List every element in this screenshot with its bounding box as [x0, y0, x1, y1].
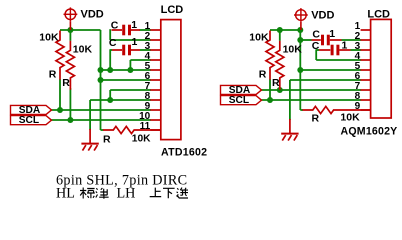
- pin 1 AQM1602Y stub: [361, 29, 371, 31]
- svg-text:LH: LH: [117, 186, 136, 202]
- pin 7 ATD1602: [150, 89, 160, 91]
- resistor R5 pullup right circuit: [276, 41, 284, 90]
- svg-text:R: R: [259, 68, 267, 80]
- wire C1 right lead to pin 1: [140, 29, 152, 31]
- kanji ue (up): [150, 188, 162, 197]
- lead C1 right: [131, 29, 140, 31]
- svg-text:10K: 10K: [39, 32, 59, 44]
- capacitor C4 right circuit: [332, 45, 338, 56]
- pin 5 ATD1602: [150, 69, 160, 71]
- resistor R6 contrast right: [303, 106, 371, 113]
- svg-text:C: C: [109, 37, 117, 49]
- svg-text:AQM1602Y: AQM1602Y: [341, 125, 398, 137]
- pin 6 AQM1602Y: [361, 79, 371, 81]
- junction R5 top: [277, 27, 283, 33]
- resistor R1 pullup left: [56, 31, 64, 80]
- pin 2 AQM1602Y: [361, 39, 371, 41]
- capacitor C2 left circuit: [124, 45, 130, 56]
- pin 5 AQM1602Y: [361, 69, 371, 71]
- resistor R2 pullup left: [66, 41, 74, 90]
- ground right: [281, 134, 298, 141]
- svg-text:11: 11: [140, 121, 151, 132]
- net flag SDA left: [11, 105, 52, 114]
- junction pin5 C2: [107, 67, 113, 73]
- wire SCL net to pin 8 right: [261, 99, 361, 101]
- svg-text:ATD1602: ATD1602: [161, 147, 207, 159]
- IC LCD module ATD1602: [161, 20, 181, 140]
- wire C4 left lead elbow to pin 4: [315, 49, 317, 60]
- svg-text:1: 1: [132, 36, 138, 48]
- svg-text:VDD: VDD: [81, 9, 104, 21]
- capacitor C1 left circuit: [124, 25, 130, 36]
- net flag SCL left: [11, 116, 52, 125]
- kanji shita (down): [163, 188, 175, 198]
- wire ground drop red right: [289, 119, 291, 133]
- net flag SCL right: [221, 96, 262, 105]
- pin 8 AQM1602Y: [361, 99, 371, 101]
- pin 11 ATD1602: [150, 129, 160, 131]
- svg-text:R: R: [62, 77, 70, 89]
- svg-text:HL: HL: [56, 186, 75, 202]
- IC LCD module AQM1602Y: [371, 19, 392, 118]
- wire pin 8 net to ground: [90, 99, 151, 101]
- junction SDA R1: [57, 107, 63, 113]
- wire C3 left lead to bus: [300, 39, 311, 41]
- wire C2 left lead elbow down to pin5 net: [109, 49, 111, 70]
- junction pin6 bus: [98, 77, 104, 83]
- pin 8 ATD1602: [150, 99, 160, 101]
- junction SCL R2: [67, 117, 73, 123]
- wire C1 left lead elbow to pin 2: [109, 29, 111, 40]
- pin 6 ATD1602: [150, 79, 160, 81]
- kanji gyaku (reverse): [176, 188, 188, 198]
- wire VDD rail right: [270, 29, 300, 31]
- resistor R3 contrast left: [103, 126, 161, 133]
- pin 2 ATD1602: [150, 39, 160, 41]
- svg-text:9: 9: [355, 101, 361, 112]
- svg-text:1: 1: [342, 39, 348, 51]
- svg-text:10K: 10K: [73, 43, 93, 55]
- junction pin8 pin7: [107, 97, 113, 103]
- svg-text:SCL: SCL: [19, 115, 39, 126]
- junction pin5 bus: [98, 67, 104, 73]
- pin 3 ATD1602: [150, 49, 160, 51]
- wire SCL net to pin 10: [51, 119, 151, 121]
- lead C2 right: [131, 49, 140, 51]
- wire R1 bottom to SDA net: [59, 79, 61, 110]
- svg-text:R: R: [103, 134, 111, 146]
- svg-text:R: R: [312, 113, 320, 125]
- lead C3 left: [312, 39, 321, 41]
- junction SCL R4: [267, 97, 273, 103]
- svg-text:LCD: LCD: [161, 4, 184, 16]
- wire pin 5 net right: [300, 69, 361, 71]
- wire pin 5 net: [101, 69, 152, 71]
- resistor R4 pullup right circuit: [266, 31, 274, 80]
- wire VDD bus vertical left: [100, 30, 102, 130]
- kanji hyou (standard-1): [80, 188, 95, 199]
- pin 4 AQM1602Y: [361, 59, 371, 61]
- svg-text:LCD: LCD: [367, 9, 390, 21]
- pin 9 ATD1602: [150, 109, 160, 111]
- lead C1 left: [112, 29, 123, 31]
- svg-text:1: 1: [329, 28, 335, 40]
- pin 1 ATD1602: [150, 29, 160, 31]
- capacitor C3 right circuit: [323, 35, 329, 46]
- junction C3 bus: [297, 37, 303, 43]
- junction pin5 pin4: [127, 67, 133, 73]
- wire R5 bottom to SDA net right: [279, 88, 281, 90]
- junction SDA R5: [277, 87, 283, 93]
- lead C4 right: [339, 49, 350, 51]
- svg-text:10K: 10K: [249, 32, 269, 44]
- wire pin 4 link to pin5 net: [130, 59, 151, 61]
- pin 7 AQM1602Y: [361, 89, 371, 91]
- lead C3 right: [330, 39, 342, 41]
- wire VDD rail left: [60, 29, 101, 31]
- junction pin5 bus right: [297, 67, 303, 73]
- wire R2 top: [69, 30, 71, 41]
- wire pin 7 link: [110, 89, 151, 91]
- wire R2 bottom to SCL net: [69, 88, 71, 120]
- svg-text:C: C: [312, 40, 320, 52]
- junction VDD left: [67, 27, 73, 33]
- wire C4 right lead to pin 3: [351, 49, 362, 51]
- svg-text:10K: 10K: [340, 111, 360, 123]
- wire SDA net to pin 7 right: [261, 89, 361, 91]
- wire ground drop red left: [89, 129, 91, 143]
- pin 10 ATD1602: [150, 119, 160, 121]
- wire C2 right lead to pin 3: [140, 49, 151, 51]
- lead C4 left: [319, 49, 330, 51]
- wire R5 top right: [279, 30, 281, 41]
- power symbol VDD right: [294, 8, 308, 30]
- kanji jun (standard-2): [96, 188, 109, 199]
- wire VDD bus vertical right: [299, 30, 301, 110]
- ground left: [81, 144, 98, 151]
- wire C3 right lead to pin 2: [342, 39, 362, 41]
- svg-text:C: C: [312, 29, 320, 41]
- net flag SDA right: [221, 85, 262, 94]
- svg-text:1: 1: [131, 19, 137, 31]
- svg-text:R: R: [49, 68, 57, 80]
- pin 4 ATD1602: [150, 59, 160, 61]
- wire SDA net to pin 9: [51, 109, 151, 111]
- wire pin 6 net to ground right: [290, 79, 361, 81]
- lead C2 left: [112, 49, 122, 51]
- svg-text:SCL: SCL: [229, 95, 249, 106]
- svg-text:R: R: [272, 77, 280, 89]
- junction VDD right: [297, 27, 303, 33]
- svg-text:10K: 10K: [283, 43, 303, 55]
- power symbol VDD left: [64, 7, 78, 30]
- pin 3 AQM1602Y: [361, 49, 371, 51]
- svg-text:10K: 10K: [132, 134, 151, 145]
- svg-text:VDD: VDD: [311, 9, 334, 21]
- svg-text:C: C: [111, 19, 119, 31]
- wire R4 bottom to SCL net right: [269, 79, 271, 100]
- pin 9 AQM1602Y: [361, 109, 371, 111]
- wire pin 6 net: [101, 79, 152, 81]
